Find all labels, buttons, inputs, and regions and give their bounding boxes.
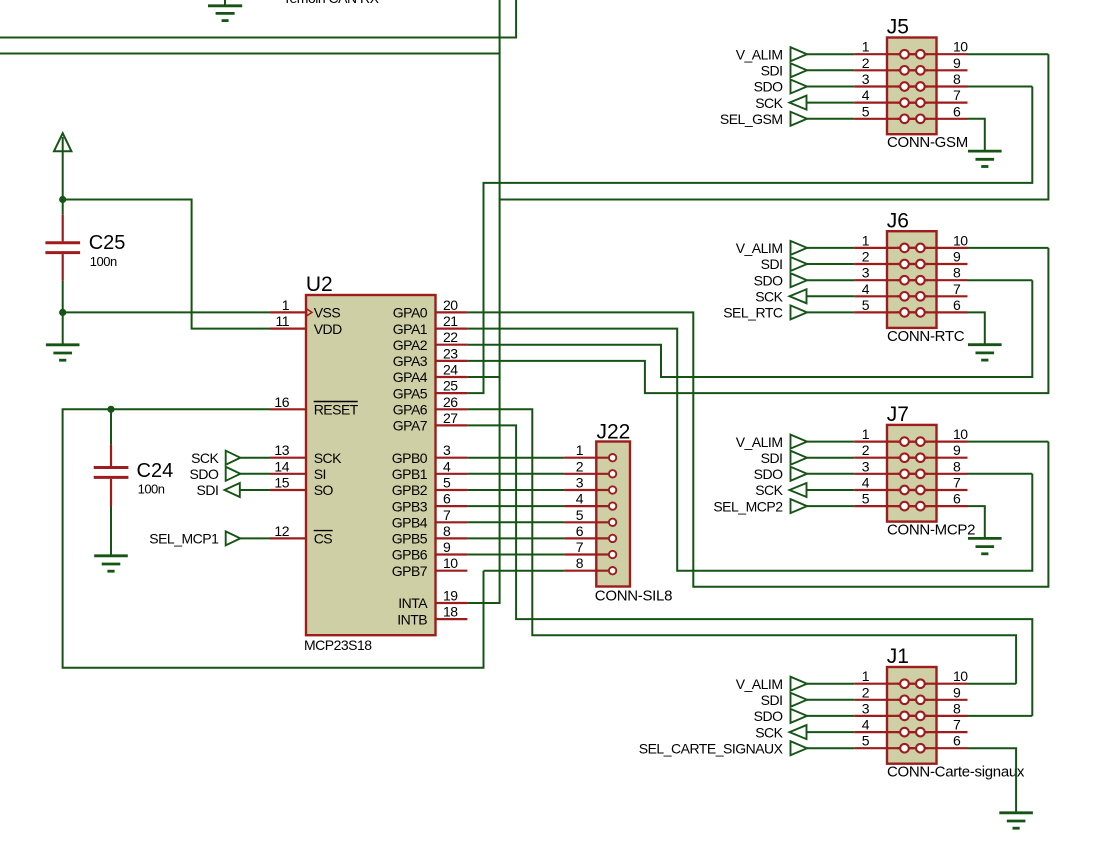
svg-text:23: 23 xyxy=(443,345,458,361)
wire SCK to J7 pin 4 xyxy=(807,489,855,491)
J5 pin holes row 4 xyxy=(900,98,925,107)
U2 pin 4 (GPB1) stub xyxy=(436,473,468,475)
connector J1 body xyxy=(887,667,937,764)
U2 pin 8 (GPB5) stub xyxy=(436,537,468,539)
overline for CS xyxy=(314,530,333,532)
J1 pin 7 stub xyxy=(897,731,968,733)
wire SEL_RTC to J6 pin 5 xyxy=(807,311,854,313)
wire SDO to J1 pin 3 xyxy=(807,715,854,717)
svg-text:8: 8 xyxy=(953,71,961,87)
J22 pin 4 stub xyxy=(564,505,613,507)
J22 pin 7 stub xyxy=(564,553,613,555)
U2 pin 15 (SO) stub xyxy=(270,489,306,491)
J6 pin 1 stub xyxy=(854,247,928,249)
J22 pin 8 stub xyxy=(564,570,613,572)
J1 pin holes row 1 xyxy=(900,679,925,688)
terminal SEL_MCP2 at J7 xyxy=(791,499,808,513)
overline for RESET xyxy=(314,401,358,403)
svg-text:CONN-Carte-signaux: CONN-Carte-signaux xyxy=(887,764,1025,781)
svg-text:1: 1 xyxy=(576,442,584,458)
svg-text:7: 7 xyxy=(953,281,961,297)
U2 pin 5 (GPB2) stub xyxy=(436,489,468,491)
J7 pin holes row 5 xyxy=(900,502,925,511)
U2 pin 21 (GPA1) stub xyxy=(436,328,468,330)
wire RESET net: U2 pin 16 loop down-right to J22 pin 8 net xyxy=(63,409,484,667)
U2 pin 18 (INTB) stub xyxy=(436,618,468,620)
wire SDI to U2 pin xyxy=(240,489,270,491)
J1 pin 1 stub xyxy=(854,683,928,685)
svg-text:8: 8 xyxy=(443,523,451,539)
terminal SCK at J5 xyxy=(790,96,807,110)
svg-text:5: 5 xyxy=(576,507,584,523)
wire INTA vertical to off-page top xyxy=(467,0,499,603)
J22 pin 1 stub xyxy=(564,457,613,459)
J5 pin 4 stub xyxy=(854,101,928,103)
terminal SEL_GSM at J5 xyxy=(791,112,808,126)
J22 pin 5 stub xyxy=(564,521,613,523)
wire V_ALIM to J7 pin 1 xyxy=(807,441,854,443)
J5 pin 1 stub xyxy=(854,53,928,55)
wire GPA2 to J6 pin 8 xyxy=(467,280,1032,377)
svg-text:SCK: SCK xyxy=(755,289,783,305)
wire J6 pin 6 to ground xyxy=(968,312,985,344)
U2 pin 19 (INTA) stub xyxy=(436,602,468,604)
svg-text:SCK: SCK xyxy=(191,450,219,466)
svg-text:SO: SO xyxy=(314,482,334,498)
J7 pin 10 stub xyxy=(897,441,968,443)
svg-text:8: 8 xyxy=(576,555,584,571)
svg-text:SEL_MCP1: SEL_MCP1 xyxy=(149,531,219,547)
svg-text:V_ALIM: V_ALIM xyxy=(736,240,783,256)
J7 pin 7 stub xyxy=(897,489,968,491)
svg-text:8: 8 xyxy=(953,265,961,281)
J5 pin 3 stub xyxy=(854,85,928,87)
wire SDO to J7 pin 3 xyxy=(807,473,854,475)
svg-text:1: 1 xyxy=(862,232,870,248)
svg-text:4: 4 xyxy=(862,87,870,103)
wire SCK to U2 pin xyxy=(240,457,270,459)
svg-text:11: 11 xyxy=(275,313,289,329)
wire J22 pin 8 to RESET net xyxy=(484,570,565,572)
J6 pin holes row 4 xyxy=(900,292,925,301)
ground below C24 xyxy=(94,556,128,571)
svg-text:15: 15 xyxy=(274,475,289,491)
svg-text:9: 9 xyxy=(443,539,451,555)
terminal V_ALIM at J5 xyxy=(791,47,808,61)
J7 pin holes row 4 xyxy=(900,486,925,495)
svg-text:20: 20 xyxy=(443,297,458,313)
U2 pin 22 (GPA2) stub xyxy=(436,344,468,346)
J22 pin 2 hole xyxy=(609,470,616,477)
svg-text:4: 4 xyxy=(862,281,870,297)
J5 pin 8 stub xyxy=(897,85,968,87)
svg-text:2: 2 xyxy=(862,249,870,265)
U2 pin 6 (GPB3) stub xyxy=(436,505,468,507)
svg-text:12: 12 xyxy=(274,523,289,539)
terminal SEL_MCP1 at U2 xyxy=(226,531,241,545)
power symbol (up arrow) above C25 xyxy=(54,133,71,199)
J6 pin 2 stub xyxy=(854,263,928,265)
wire GPA0 to J7 pin 10 xyxy=(467,312,1048,586)
wire SDO to J5 pin 3 xyxy=(807,86,854,88)
U2 pin 10 (GPB7) stub xyxy=(436,570,468,572)
J1 pin 8 stub xyxy=(897,715,968,717)
wire J1 pin 8 to GPA7 bus xyxy=(968,715,1033,717)
J5 pin holes row 1 xyxy=(900,50,925,59)
svg-text:2: 2 xyxy=(576,458,584,474)
junction dot at C25 top node xyxy=(59,196,66,203)
svg-text:SCK: SCK xyxy=(755,482,783,498)
wire J6 pin 10 to bus xyxy=(968,247,1049,249)
J6 pin 8 stub xyxy=(897,279,968,281)
svg-text:CONN-GSM: CONN-GSM xyxy=(887,134,968,151)
ground (top, Temoin net) xyxy=(208,0,242,21)
svg-text:SDI: SDI xyxy=(761,256,783,272)
svg-text:GPA0: GPA0 xyxy=(393,305,428,321)
wire VSS net: C25 bottom to U2 pin 1 xyxy=(63,311,270,313)
svg-text:SDI: SDI xyxy=(761,450,783,466)
J7 pin holes row 1 xyxy=(900,437,925,446)
svg-text:GPB3: GPB3 xyxy=(392,498,428,514)
J5 pin 5 stub xyxy=(854,118,928,120)
J7 pin holes row 2 xyxy=(900,453,925,462)
svg-text:10: 10 xyxy=(953,668,968,684)
ground at J5 pin 6 xyxy=(968,151,1002,166)
U2 pin 20 (GPA0) stub xyxy=(436,311,468,313)
J1 pin holes row 5 xyxy=(900,744,925,753)
J22 pin 2 stub xyxy=(564,473,613,475)
ground below C25 xyxy=(62,312,64,344)
J6 pin 9 stub xyxy=(897,263,968,265)
wire SDI to J6 pin 2 xyxy=(807,263,854,265)
wire GPA4 to J5 pin 10 route xyxy=(467,376,499,378)
J6 pin holes row 5 xyxy=(900,308,925,317)
U2 pin 1 input arrow marker xyxy=(307,309,313,316)
svg-text:7: 7 xyxy=(953,87,961,103)
svg-text:1: 1 xyxy=(862,668,870,684)
svg-text:SEL_CARTE_SIGNAUX: SEL_CARTE_SIGNAUX xyxy=(639,740,784,756)
svg-text:9: 9 xyxy=(953,249,961,265)
J22 pin 4 hole xyxy=(609,502,616,509)
svg-text:22: 22 xyxy=(443,329,458,345)
terminal SDO at U2 xyxy=(226,467,241,481)
wire SEL_MCP2 to J7 pin 5 xyxy=(807,505,854,507)
svg-text:GPA3: GPA3 xyxy=(393,353,428,369)
svg-text:5: 5 xyxy=(443,475,451,491)
svg-text:3: 3 xyxy=(576,475,584,491)
svg-text:Temoin CAN RX: Temoin CAN RX xyxy=(283,0,380,6)
J22 pin 1 hole xyxy=(609,454,616,461)
J1 pin 2 stub xyxy=(854,699,928,701)
terminal SDI at J6 xyxy=(791,257,808,271)
wire GPA6 to J1 pin 10 xyxy=(467,409,1016,683)
wire SDI to J1 pin 2 xyxy=(807,699,854,701)
terminal SEL_CARTE_SIGNAUX at J1 xyxy=(791,741,808,755)
svg-text:MCP23S18: MCP23S18 xyxy=(304,637,372,653)
svg-text:CONN-SIL8: CONN-SIL8 xyxy=(595,588,672,605)
wire J6 pin 8 to bus xyxy=(968,279,1033,281)
J1 pin 10 stub xyxy=(897,683,968,685)
terminal SDI at U2 xyxy=(225,483,240,497)
wire SDI to J7 pin 2 xyxy=(807,457,854,459)
svg-text:GPA6: GPA6 xyxy=(393,402,428,418)
svg-text:SI: SI xyxy=(314,466,326,482)
J5 pin holes row 2 xyxy=(900,66,925,75)
svg-text:2: 2 xyxy=(862,55,870,71)
svg-text:SDO: SDO xyxy=(754,708,783,724)
wire J1 pin 10 to GPA6 bus xyxy=(968,683,1017,685)
terminal SDO at J5 xyxy=(791,80,808,94)
capacitor C25 xyxy=(45,200,80,313)
svg-text:SEL_RTC: SEL_RTC xyxy=(723,305,783,321)
J5 pin 7 stub xyxy=(897,101,968,103)
svg-text:V_ALIM: V_ALIM xyxy=(736,434,783,450)
J1 pin 4 stub xyxy=(854,731,928,733)
J22 pin 3 hole xyxy=(609,486,616,493)
svg-text:J22: J22 xyxy=(597,420,631,443)
wire J5 pin 8 stub to bus xyxy=(968,86,1033,88)
svg-text:GPA1: GPA1 xyxy=(393,321,428,337)
wire SCK to J5 pin 4 xyxy=(807,102,855,104)
J6 pin 10 stub xyxy=(897,247,968,249)
svg-text:GPA2: GPA2 xyxy=(393,337,428,353)
J22 pin 3 stub xyxy=(564,489,613,491)
terminal SDI at J1 xyxy=(791,693,808,707)
U2 pin 3 (GPB0) stub xyxy=(436,457,468,459)
wire V_ALIM to J6 pin 1 xyxy=(807,247,854,249)
svg-text:SDO: SDO xyxy=(754,272,783,288)
wire J7 pin 8 to bus xyxy=(968,473,1033,475)
J6 pin 5 stub xyxy=(854,311,928,313)
wire net B (y=53.5 bus to off-page left) xyxy=(0,53,500,55)
svg-text:6: 6 xyxy=(953,297,961,313)
J6 pin holes row 2 xyxy=(900,260,925,269)
terminal SCK at J7 xyxy=(790,483,807,497)
connector J6 body xyxy=(887,231,937,328)
terminal SCK at J1 xyxy=(790,725,807,739)
svg-text:4: 4 xyxy=(862,475,870,491)
svg-text:7: 7 xyxy=(953,717,961,733)
svg-text:1: 1 xyxy=(282,297,290,313)
svg-text:9: 9 xyxy=(953,55,961,71)
wire GPA1 to J7 pin 8 xyxy=(467,329,1032,571)
U2 pin 16 (RESET) stub xyxy=(270,408,306,410)
svg-text:J1: J1 xyxy=(887,645,909,668)
J1 pin 9 stub xyxy=(897,699,968,701)
wire SDO to J6 pin 3 xyxy=(807,279,854,281)
wire J1 pin 6 to ground xyxy=(968,748,1017,813)
svg-text:SDI: SDI xyxy=(761,63,783,79)
ground at J7 pin 6 xyxy=(968,538,1002,553)
J7 pin 5 stub xyxy=(854,505,928,507)
svg-text:3: 3 xyxy=(862,458,870,474)
wire SCK to J6 pin 4 xyxy=(807,295,855,297)
svg-text:3: 3 xyxy=(443,442,451,458)
wire SEL_CARTE_SIGNAUX to J1 pin 5 xyxy=(807,747,854,749)
wire SDI to J5 pin 2 xyxy=(807,69,854,71)
wire J5 pin 10 to y=199.5 bus xyxy=(500,54,1049,199)
svg-text:INTB: INTB xyxy=(397,611,427,627)
svg-text:SDI: SDI xyxy=(761,692,783,708)
connector J7 body xyxy=(887,425,937,522)
J7 pin 2 stub xyxy=(854,457,928,459)
terminal V_ALIM at J7 xyxy=(791,435,808,449)
svg-text:U2: U2 xyxy=(306,273,333,296)
J1 pin holes row 2 xyxy=(900,696,925,705)
J7 pin 8 stub xyxy=(897,473,968,475)
svg-text:1: 1 xyxy=(862,39,870,55)
svg-text:10: 10 xyxy=(443,555,458,571)
svg-text:SCK: SCK xyxy=(314,450,342,466)
svg-text:27: 27 xyxy=(443,410,458,426)
svg-text:INTA: INTA xyxy=(398,595,428,611)
U2 pin 13 (SCK) stub xyxy=(270,457,306,459)
U2 pin 9 (GPB6) stub xyxy=(436,553,468,555)
svg-text:5: 5 xyxy=(862,103,870,119)
svg-text:CS: CS xyxy=(314,531,333,547)
terminal SDO at J1 xyxy=(791,709,808,723)
svg-text:100n: 100n xyxy=(138,482,165,497)
svg-text:J5: J5 xyxy=(887,16,909,39)
svg-text:100n: 100n xyxy=(90,254,117,269)
wire J7 pin 10 to bus xyxy=(968,441,1049,443)
svg-text:GPB4: GPB4 xyxy=(392,515,428,531)
svg-text:18: 18 xyxy=(443,604,458,620)
U2 pin 27 (GPA7) stub xyxy=(436,424,468,426)
wire V_ALIM to J1 pin 1 xyxy=(807,683,854,685)
wire SDO to U2 pin xyxy=(240,473,270,475)
svg-text:2: 2 xyxy=(862,684,870,700)
svg-text:GPB7: GPB7 xyxy=(392,563,428,579)
wire GPB1 to J22 pin 2 xyxy=(467,473,564,475)
J22 pin 5 hole xyxy=(609,519,616,526)
J7 pin 9 stub xyxy=(897,457,968,459)
svg-text:GPB5: GPB5 xyxy=(392,531,428,547)
svg-text:GPB0: GPB0 xyxy=(392,450,428,466)
J5 pin holes row 3 xyxy=(900,82,925,91)
J6 pin holes row 1 xyxy=(900,244,925,253)
svg-text:1: 1 xyxy=(862,426,870,442)
wire SCK to J1 pin 4 xyxy=(807,731,855,733)
svg-text:3: 3 xyxy=(862,71,870,87)
IC U2 MCP23S18 body xyxy=(306,295,436,635)
svg-text:8: 8 xyxy=(953,458,961,474)
wire J5 pin 6 to ground xyxy=(968,119,985,151)
terminal SDI at J7 xyxy=(791,451,808,465)
J5 pin 6 stub xyxy=(897,118,968,120)
svg-text:V_ALIM: V_ALIM xyxy=(736,676,783,692)
wire GPB3 to J22 pin 4 xyxy=(467,505,564,507)
svg-text:25: 25 xyxy=(443,378,458,394)
svg-text:4: 4 xyxy=(576,491,584,507)
junction dot at C24 top node xyxy=(107,406,114,413)
J22 pin 8 hole xyxy=(609,567,616,574)
J1 pin holes row 3 xyxy=(900,712,925,721)
svg-text:14: 14 xyxy=(274,458,289,474)
svg-text:2: 2 xyxy=(862,442,870,458)
U2 pin 14 (SI) stub xyxy=(270,473,306,475)
svg-text:21: 21 xyxy=(443,313,458,329)
J1 pin 3 stub xyxy=(854,715,928,717)
J7 pin 3 stub xyxy=(854,473,928,475)
svg-text:GPB2: GPB2 xyxy=(392,482,428,498)
svg-text:J7: J7 xyxy=(887,403,909,426)
J1 pin 6 stub xyxy=(897,747,968,749)
svg-text:5: 5 xyxy=(862,733,870,749)
J22 pin 7 hole xyxy=(609,551,616,558)
U2 pin 23 (GPA3) stub xyxy=(436,360,468,362)
svg-text:SEL_GSM: SEL_GSM xyxy=(720,111,783,127)
J1 pin holes row 4 xyxy=(900,728,925,737)
svg-text:10: 10 xyxy=(953,426,968,442)
J6 pin 6 stub xyxy=(897,311,968,313)
wire net A (y=37.5 bus to off-page left) xyxy=(0,0,516,38)
svg-text:10: 10 xyxy=(953,232,968,248)
svg-text:SCK: SCK xyxy=(755,95,783,111)
wire GPB2 to J22 pin 3 xyxy=(467,489,564,491)
wire J7 pin 6 to ground xyxy=(968,506,985,538)
svg-text:SCK: SCK xyxy=(755,724,783,740)
svg-text:VSS: VSS xyxy=(314,305,341,321)
svg-text:6: 6 xyxy=(953,491,961,507)
svg-text:GPA5: GPA5 xyxy=(393,385,428,401)
terminal SCK at J6 xyxy=(790,289,807,303)
J5 pin 9 stub xyxy=(897,69,968,71)
wire V_ALIM to J5 pin 1 xyxy=(807,53,854,55)
terminal SCK at U2 xyxy=(226,451,241,465)
svg-text:5: 5 xyxy=(862,491,870,507)
terminal V_ALIM at J1 xyxy=(791,677,808,691)
connector J22 body xyxy=(596,442,630,587)
ground at J1 pin 6 xyxy=(999,813,1033,828)
J6 pin 7 stub xyxy=(897,295,968,297)
wire VDD net: C25 top to U2 pin 11 xyxy=(63,200,270,329)
wire GPA3 to J6 pin 10 xyxy=(467,248,1048,393)
wire SEL_MCP1 to U2 pin xyxy=(240,537,270,539)
svg-text:SEL_MCP2: SEL_MCP2 xyxy=(713,498,783,514)
svg-text:RESET: RESET xyxy=(314,402,359,418)
svg-text:SDO: SDO xyxy=(754,466,783,482)
terminal SDO at J6 xyxy=(791,273,808,287)
J5 pin holes row 5 xyxy=(900,115,925,124)
J6 pin 4 stub xyxy=(854,295,928,297)
terminal SDI at J5 xyxy=(791,63,808,77)
J22 pin 6 stub xyxy=(564,537,613,539)
svg-text:SDI: SDI xyxy=(197,482,219,498)
J5 pin 10 stub xyxy=(897,53,968,55)
J6 pin 3 stub xyxy=(854,279,928,281)
svg-text:4: 4 xyxy=(862,717,870,733)
terminal SEL_RTC at J6 xyxy=(791,305,808,319)
svg-text:C25: C25 xyxy=(89,232,126,254)
svg-text:7: 7 xyxy=(953,475,961,491)
J6 pin holes row 3 xyxy=(900,276,925,285)
J5 pin 2 stub xyxy=(854,69,928,71)
U2 pin 11 (VDD) stub xyxy=(270,328,306,330)
J7 pin 6 stub xyxy=(897,505,968,507)
wire GPA5 to J5 pin 8 xyxy=(467,87,1032,394)
svg-text:SDO: SDO xyxy=(754,79,783,95)
J22 pin 6 hole xyxy=(609,535,616,542)
J7 pin 1 stub xyxy=(854,441,928,443)
svg-text:16: 16 xyxy=(274,394,289,410)
svg-text:GPA7: GPA7 xyxy=(393,418,428,434)
terminal SDO at J7 xyxy=(791,467,808,481)
J7 pin 4 stub xyxy=(854,489,928,491)
J7 pin holes row 3 xyxy=(900,470,925,479)
svg-text:26: 26 xyxy=(443,394,458,410)
svg-text:5: 5 xyxy=(862,297,870,313)
